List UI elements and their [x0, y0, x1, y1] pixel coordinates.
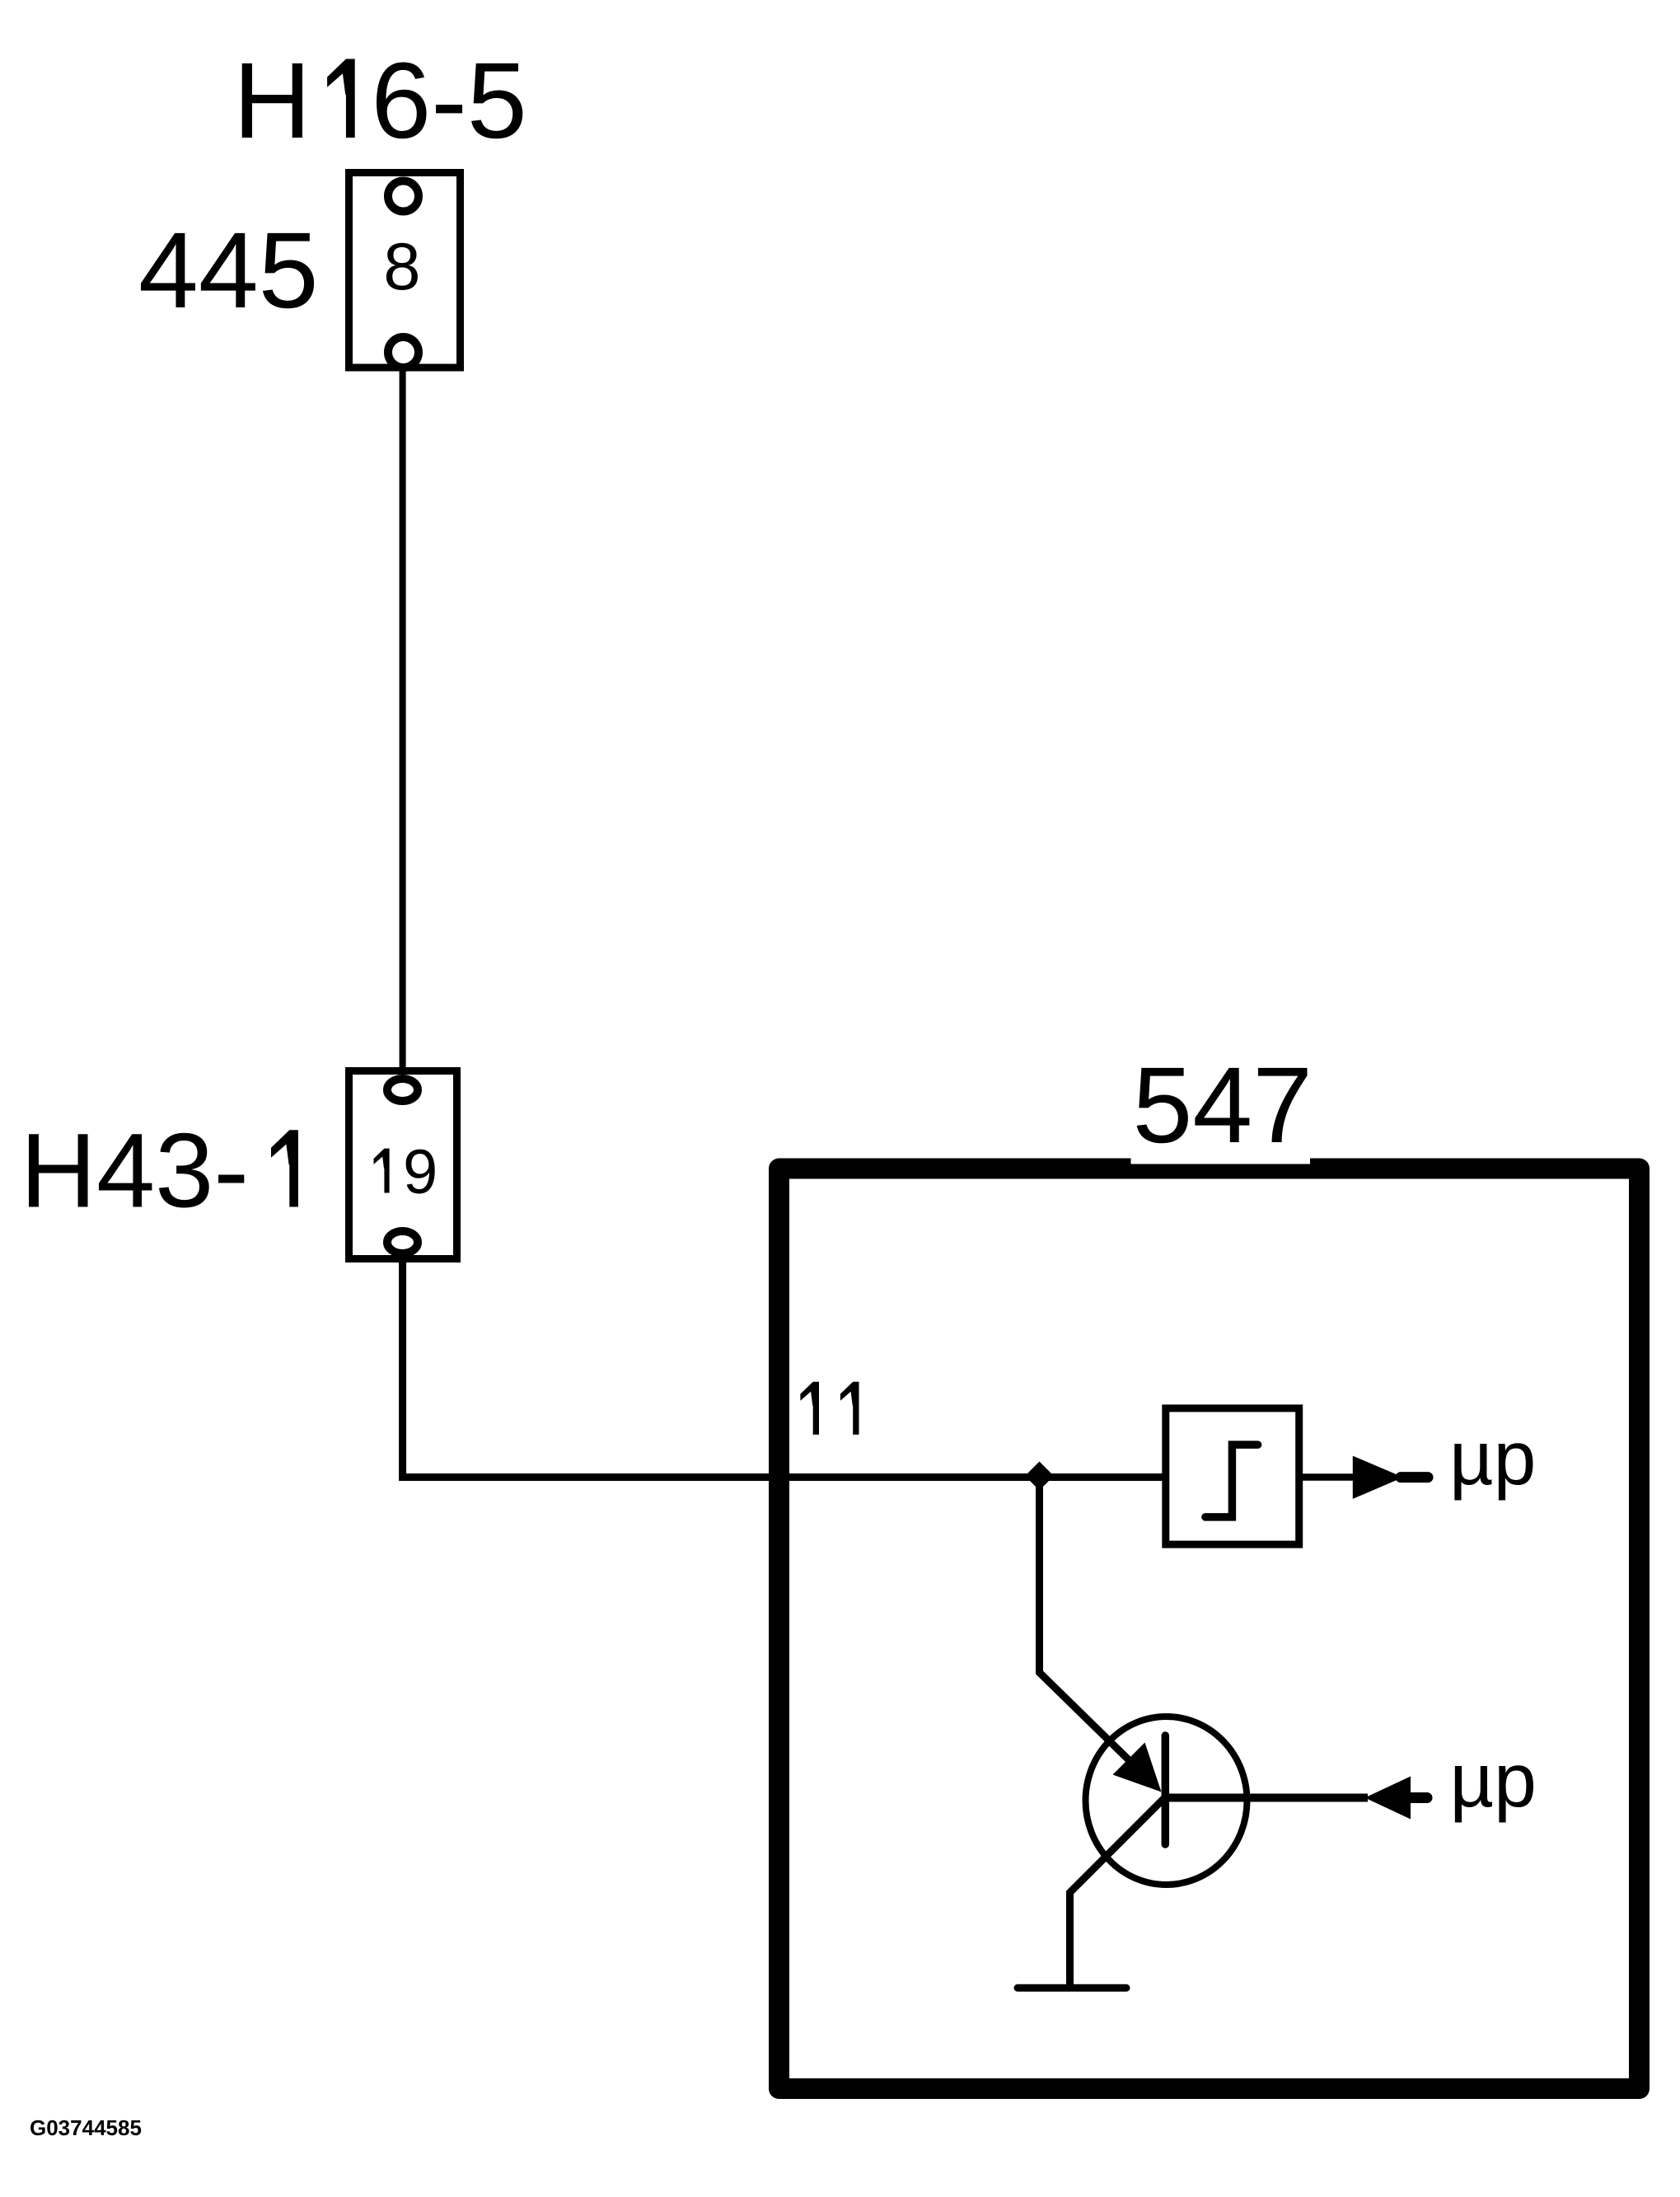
svg-text:H: H	[233, 40, 311, 161]
pin 11 label	[800, 1382, 819, 1435]
wire schmitt output	[1303, 1473, 1358, 1481]
svg-text:445: 445	[138, 209, 319, 330]
connector 445 top pin circle	[388, 181, 419, 212]
connector H43-1 bottom pin circle	[387, 1231, 418, 1253]
pin 19 label	[374, 1149, 390, 1193]
arrow from microprocessor (left)	[1365, 1777, 1411, 1820]
connector 445 body	[349, 173, 461, 368]
arrow to microprocessor (right)	[1353, 1456, 1403, 1499]
svg-text:G03744585: G03744585	[30, 2115, 142, 2140]
svg-text:µp: µp	[1449, 1415, 1536, 1501]
svg-text:547: 547	[1133, 1044, 1313, 1165]
label tab notch	[1131, 1152, 1311, 1164]
junction node dot	[1025, 1462, 1054, 1491]
connector H43-1 top pin circle	[387, 1079, 418, 1101]
schmitt step symbol	[1205, 1445, 1258, 1517]
connector 445 bottom pin circle	[388, 337, 419, 368]
wire junction to transistor base	[1040, 1473, 1153, 1782]
svg-text:9: 9	[403, 1137, 438, 1207]
connector H43-1 body	[349, 1071, 457, 1259]
wire 445 pin 8 to H43-1 pin 19	[400, 368, 406, 1070]
svg-text:µp: µp	[1450, 1737, 1537, 1823]
transistor collector wire	[1165, 1794, 1368, 1802]
svg-text:6-5: 6-5	[371, 40, 526, 161]
ground	[1018, 1984, 1126, 1992]
arrow stub 2	[1409, 1792, 1427, 1803]
ECM box 547	[779, 1169, 1640, 2089]
transistor emitter wire	[1070, 1797, 1166, 1989]
svg-text:8: 8	[383, 230, 420, 304]
transistor base arrowhead	[1113, 1743, 1162, 1792]
wire H43-1 pin 19 to ECM pin 11	[403, 1261, 1163, 1478]
transistor Q1 circle	[1086, 1717, 1247, 1885]
svg-text:H43-: H43-	[21, 1113, 249, 1230]
transistor bar	[1162, 1736, 1170, 1844]
arrow stub	[1401, 1472, 1428, 1483]
schmitt trigger box U1	[1166, 1408, 1299, 1544]
